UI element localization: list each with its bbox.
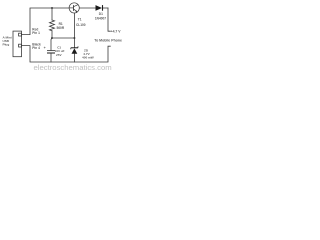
svg-text:Pin 1: Pin 1 xyxy=(32,31,40,35)
svg-text:To Mobile Phone: To Mobile Phone xyxy=(94,39,122,43)
svg-text:electroschematics.com: electroschematics.com xyxy=(34,63,112,72)
svg-text:T1: T1 xyxy=(78,18,82,22)
svg-text:560R: 560R xyxy=(57,26,65,30)
svg-text:+4.7 V: +4.7 V xyxy=(111,29,122,33)
svg-text:D1: D1 xyxy=(99,12,103,16)
svg-text:400 mW: 400 mW xyxy=(82,56,94,60)
svg-text:CL100: CL100 xyxy=(76,23,86,27)
svg-text:1N4007: 1N4007 xyxy=(95,16,106,20)
svg-text:Pin 4: Pin 4 xyxy=(32,46,40,50)
svg-text:+: + xyxy=(44,46,46,50)
svg-text:Plug: Plug xyxy=(3,42,10,46)
svg-text:25V: 25V xyxy=(56,53,62,57)
